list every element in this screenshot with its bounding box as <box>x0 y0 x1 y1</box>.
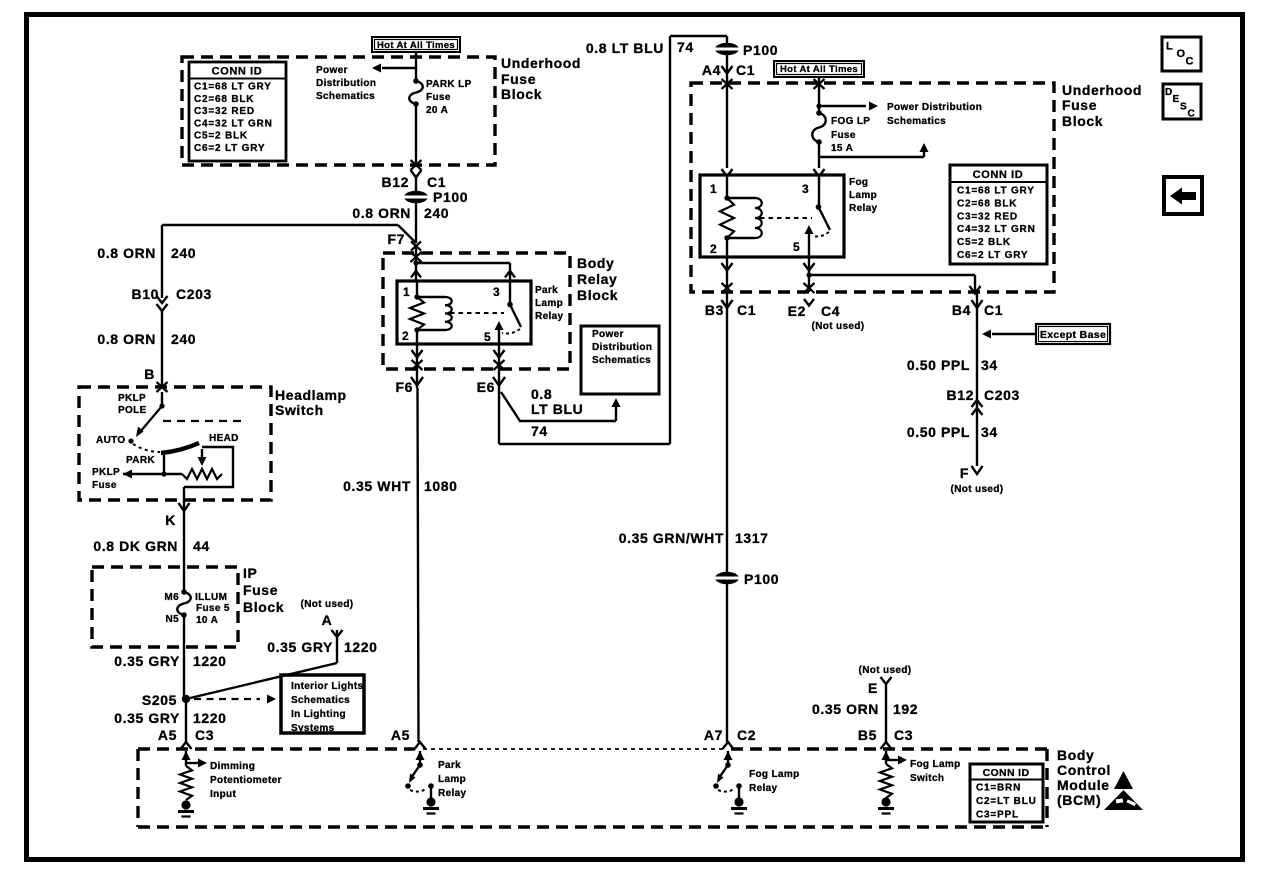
svg-text:PKLP: PKLP <box>92 467 120 478</box>
svg-text:Lamp: Lamp <box>849 190 877 201</box>
svg-text:Relay: Relay <box>577 271 617 287</box>
svg-text:LT BLU: LT BLU <box>531 401 583 417</box>
svg-text:(BCM): (BCM) <box>1057 792 1101 808</box>
svg-text:0.8 ORN: 0.8 ORN <box>97 245 156 261</box>
svg-text:34: 34 <box>981 424 998 440</box>
svg-text:74: 74 <box>677 39 694 55</box>
svg-text:B5: B5 <box>858 727 877 743</box>
svg-text:Control: Control <box>1057 762 1111 778</box>
svg-text:FOG LP: FOG LP <box>831 116 870 127</box>
svg-text:C3: C3 <box>894 727 913 743</box>
svg-text:C4=32 LT GRN: C4=32 LT GRN <box>957 224 1036 235</box>
svg-text:C5=2 BLK: C5=2 BLK <box>194 131 248 142</box>
svg-text:0.35 ORN: 0.35 ORN <box>812 701 879 717</box>
svg-text:Schematics: Schematics <box>592 355 651 366</box>
svg-text:20 A: 20 A <box>426 105 448 116</box>
svg-text:CONN ID: CONN ID <box>212 66 263 78</box>
svg-text:Lamp: Lamp <box>535 298 563 309</box>
svg-text:Body: Body <box>1057 747 1094 763</box>
svg-text:C: C <box>1186 56 1195 68</box>
svg-text:B12: B12 <box>947 387 974 403</box>
svg-text:F: F <box>960 465 969 481</box>
svg-text:F6: F6 <box>395 379 413 395</box>
svg-text:240: 240 <box>424 205 449 221</box>
svg-text:240: 240 <box>171 331 196 347</box>
svg-text:(Not used): (Not used) <box>812 321 865 332</box>
svg-text:C203: C203 <box>176 286 212 302</box>
svg-text:0.8 ORN: 0.8 ORN <box>97 331 156 347</box>
svg-text:HEAD: HEAD <box>209 433 239 444</box>
svg-text:Block: Block <box>243 599 284 615</box>
svg-text:F7: F7 <box>387 231 405 247</box>
svg-text:PARK LP: PARK LP <box>426 79 472 90</box>
svg-text:2: 2 <box>402 329 409 343</box>
svg-text:Relay: Relay <box>438 788 467 799</box>
svg-text:C1: C1 <box>427 174 446 190</box>
svg-text:(Not used): (Not used) <box>951 484 1004 495</box>
svg-text:Fuse: Fuse <box>243 582 278 598</box>
svg-text:C5=2 BLK: C5=2 BLK <box>957 237 1011 248</box>
svg-text:A: A <box>322 612 333 628</box>
svg-text:Underhood: Underhood <box>501 55 581 71</box>
svg-text:In Lighting: In Lighting <box>291 709 346 720</box>
svg-text:(Not used): (Not used) <box>301 599 354 610</box>
svg-text:15 A: 15 A <box>831 143 853 154</box>
svg-text:240: 240 <box>171 245 196 261</box>
svg-text:Block: Block <box>501 86 542 102</box>
svg-text:A5: A5 <box>158 727 177 743</box>
svg-text:CONN ID: CONN ID <box>983 767 1030 779</box>
svg-text:Power Distribution: Power Distribution <box>887 102 982 113</box>
svg-text:Systems: Systems <box>291 723 335 734</box>
svg-text:1: 1 <box>710 182 717 196</box>
svg-text:C6=2 LT GRY: C6=2 LT GRY <box>957 250 1028 261</box>
svg-text:C1: C1 <box>736 62 755 78</box>
svg-text:Fog Lamp: Fog Lamp <box>749 769 800 780</box>
svg-text:192: 192 <box>893 701 918 717</box>
svg-text:0.35 GRY: 0.35 GRY <box>114 710 180 726</box>
svg-text:Switch: Switch <box>275 402 324 418</box>
svg-text:Module: Module <box>1057 777 1110 793</box>
svg-text:PARK: PARK <box>126 455 155 466</box>
svg-text:10 A: 10 A <box>196 615 218 626</box>
svg-text:AUTO: AUTO <box>96 435 126 446</box>
svg-text:0.35 GRY: 0.35 GRY <box>267 639 333 655</box>
svg-text:D: D <box>1165 87 1173 98</box>
svg-text:0.50 PPL: 0.50 PPL <box>907 357 970 373</box>
svg-text:Relay: Relay <box>535 311 564 322</box>
svg-text:A4: A4 <box>702 62 721 78</box>
svg-text:Fuse: Fuse <box>92 480 117 491</box>
svg-text:Except Base: Except Base <box>1040 329 1106 341</box>
svg-text:E: E <box>868 680 878 696</box>
svg-text:N5: N5 <box>166 614 180 625</box>
svg-text:Park: Park <box>438 760 461 771</box>
svg-text:1220: 1220 <box>193 710 227 726</box>
svg-text:Fog: Fog <box>849 177 868 188</box>
svg-text:C3=PPL: C3=PPL <box>976 810 1019 821</box>
svg-text:Distribution: Distribution <box>316 78 376 89</box>
svg-text:0.8 DK GRN: 0.8 DK GRN <box>93 538 178 554</box>
svg-text:1220: 1220 <box>344 639 378 655</box>
svg-text:5: 5 <box>793 240 800 254</box>
svg-text:E6: E6 <box>477 379 495 395</box>
svg-text:Schematics: Schematics <box>316 91 375 102</box>
svg-text:74: 74 <box>531 423 548 439</box>
svg-text:E: E <box>1173 94 1180 105</box>
svg-text:C3: C3 <box>195 727 214 743</box>
svg-text:IP: IP <box>243 565 257 581</box>
svg-text:ILLUM: ILLUM <box>195 592 227 603</box>
svg-text:Underhood: Underhood <box>1062 82 1142 98</box>
svg-text:CONN ID: CONN ID <box>973 169 1024 181</box>
svg-text:S205: S205 <box>142 692 177 708</box>
svg-text:Fuse: Fuse <box>426 92 451 103</box>
svg-text:Dimming: Dimming <box>210 761 255 772</box>
svg-text:M6: M6 <box>164 592 179 603</box>
svg-text:C3=32 RED: C3=32 RED <box>957 211 1018 222</box>
svg-text:L: L <box>1166 41 1173 53</box>
svg-text:0.35 GRN/WHT: 0.35 GRN/WHT <box>619 530 724 546</box>
svg-text:1317: 1317 <box>735 530 769 546</box>
svg-text:Fog Lamp: Fog Lamp <box>910 759 961 770</box>
svg-text:Schematics: Schematics <box>291 695 350 706</box>
svg-text:B4: B4 <box>952 302 971 318</box>
svg-text:Input: Input <box>210 789 237 800</box>
svg-text:Hot At All Times: Hot At All Times <box>780 64 858 75</box>
svg-text:POLE: POLE <box>118 405 147 416</box>
svg-text:C6=2 LT GRY: C6=2 LT GRY <box>194 143 265 154</box>
svg-text:Relay: Relay <box>749 783 778 794</box>
svg-text:A7: A7 <box>704 727 723 743</box>
svg-text:0.8: 0.8 <box>531 386 552 402</box>
svg-text:1220: 1220 <box>193 653 227 669</box>
svg-text:Hot At All Times: Hot At All Times <box>377 40 455 51</box>
svg-text:O: O <box>1177 48 1186 60</box>
svg-text:C2=68 BLK: C2=68 BLK <box>194 94 254 105</box>
svg-text:B10: B10 <box>132 286 159 302</box>
svg-text:P100: P100 <box>744 571 779 587</box>
svg-text:Relay: Relay <box>849 203 878 214</box>
svg-text:3: 3 <box>493 285 500 299</box>
svg-text:Fuse: Fuse <box>1062 97 1097 113</box>
svg-text:B3: B3 <box>705 302 724 318</box>
svg-text:Switch: Switch <box>910 773 944 784</box>
svg-text:C: C <box>1188 109 1196 120</box>
svg-text:0.35 WHT: 0.35 WHT <box>343 478 411 494</box>
svg-text:Schematics: Schematics <box>887 116 946 127</box>
svg-text:Fuse: Fuse <box>831 130 856 141</box>
svg-text:A5: A5 <box>391 727 410 743</box>
svg-text:C203: C203 <box>984 387 1020 403</box>
svg-text:C1=68 LT GRY: C1=68 LT GRY <box>194 82 272 93</box>
svg-text:K: K <box>165 512 176 528</box>
svg-text:0.8 ORN: 0.8 ORN <box>352 205 411 221</box>
svg-text:C3=32 RED: C3=32 RED <box>194 106 255 117</box>
svg-text:5: 5 <box>484 330 491 344</box>
svg-text:C2: C2 <box>737 727 756 743</box>
svg-text:B: B <box>144 366 155 382</box>
svg-text:Body: Body <box>577 255 614 271</box>
svg-text:P100: P100 <box>433 189 468 205</box>
svg-text:Distribution: Distribution <box>592 342 652 353</box>
svg-text:Park: Park <box>535 285 558 296</box>
svg-text:(Not used): (Not used) <box>859 665 912 676</box>
svg-text:Interior Lights: Interior Lights <box>291 681 364 692</box>
svg-text:C4=32 LT GRN: C4=32 LT GRN <box>194 118 273 129</box>
svg-text:0.50 PPL: 0.50 PPL <box>907 424 970 440</box>
svg-text:E2: E2 <box>788 303 806 319</box>
svg-text:B12: B12 <box>382 174 409 190</box>
svg-text:3: 3 <box>802 182 809 196</box>
svg-text:1: 1 <box>403 285 410 299</box>
svg-text:34: 34 <box>981 357 998 373</box>
svg-text:C1: C1 <box>984 302 1003 318</box>
svg-text:C1=BRN: C1=BRN <box>976 783 1021 794</box>
svg-text:Block: Block <box>1062 113 1103 129</box>
svg-text:Potentiometer: Potentiometer <box>210 775 282 786</box>
svg-text:1080: 1080 <box>424 478 458 494</box>
svg-text:0.35 GRY: 0.35 GRY <box>114 653 180 669</box>
svg-text:Fuse: Fuse <box>501 71 536 87</box>
svg-text:P100: P100 <box>743 42 778 58</box>
svg-text:2: 2 <box>710 242 717 256</box>
svg-text:C4: C4 <box>821 303 840 319</box>
svg-text:C1=68 LT GRY: C1=68 LT GRY <box>957 186 1035 197</box>
svg-text:Fuse 5: Fuse 5 <box>196 603 230 614</box>
svg-text:Headlamp: Headlamp <box>275 387 347 403</box>
svg-text:Block: Block <box>577 287 618 303</box>
svg-text:Power: Power <box>592 329 624 340</box>
svg-text:C2=LT BLU: C2=LT BLU <box>976 796 1037 807</box>
svg-text:0.8 LT BLU: 0.8 LT BLU <box>586 40 664 56</box>
svg-text:Lamp: Lamp <box>438 774 466 785</box>
svg-text:C2=68 BLK: C2=68 BLK <box>957 198 1017 209</box>
svg-text:Power: Power <box>316 65 348 76</box>
svg-text:S: S <box>1180 102 1187 113</box>
svg-text:C1: C1 <box>737 302 756 318</box>
svg-text:44: 44 <box>193 538 210 554</box>
svg-text:PKLP: PKLP <box>118 393 146 404</box>
